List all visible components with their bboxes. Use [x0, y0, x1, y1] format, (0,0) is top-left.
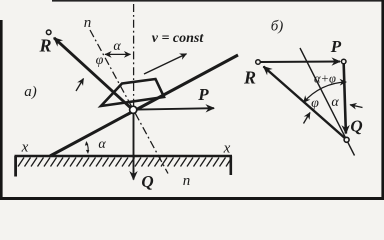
svg-text:n: n [183, 173, 191, 189]
svg-text:x: x [223, 141, 231, 157]
svg-text:α+φ: α+φ [314, 72, 336, 86]
svg-text:б): б) [271, 19, 284, 35]
svg-text:α: α [98, 137, 106, 152]
svg-text:а): а) [24, 84, 37, 100]
svg-text:P: P [197, 85, 209, 104]
svg-text:v = const: v = const [152, 31, 205, 46]
svg-text:R: R [38, 36, 51, 56]
svg-text:α: α [113, 39, 121, 54]
svg-text:Q: Q [350, 117, 362, 136]
svg-text:x: x [21, 140, 29, 156]
svg-text:R: R [243, 68, 256, 88]
svg-text:P: P [330, 37, 342, 56]
svg-text:φ: φ [311, 96, 319, 111]
svg-text:α: α [331, 95, 339, 110]
svg-text:Q: Q [141, 172, 153, 191]
svg-text:n: n [84, 15, 92, 31]
svg-text:φ: φ [96, 53, 104, 68]
